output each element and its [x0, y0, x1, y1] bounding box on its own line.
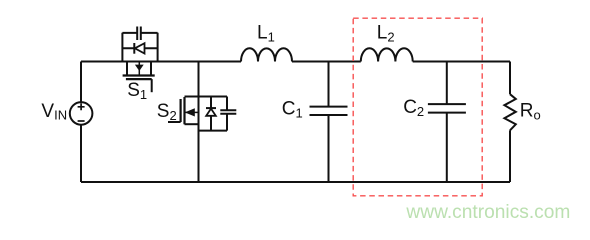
svg-text:VIN: VIN	[41, 101, 67, 123]
transistor S1 gate bar	[126, 78, 152, 80]
svg-text:L1: L1	[257, 23, 275, 45]
wire: left vertical, rail to V_IN top	[80, 62, 82, 103]
diode across S2: cathode bar	[206, 107, 216, 109]
wire: Ro bottom to bottom rail	[509, 130, 511, 182]
wire: top rail, V_IN to L1	[81, 61, 241, 63]
svg-text:L2: L2	[377, 23, 395, 45]
source V_IN minus sign	[78, 120, 85, 122]
transistor S2 body arrow shaft	[185, 111, 199, 113]
inductor L1	[241, 48, 292, 61]
highlight box (red dashed) around L2/C2 stage	[353, 18, 482, 196]
transistor S2 gate bar	[180, 99, 182, 122]
transistor S1 drain stub	[126, 62, 128, 75]
capacitor C2 top lead	[446, 62, 448, 105]
svg-text:S2: S2	[157, 101, 177, 123]
capacitor C2 bottom lead	[446, 113, 448, 182]
switch S1 snubber loop left vertical	[121, 33, 123, 62]
capacitor C1 top lead	[328, 62, 330, 107]
wire: bottom rail	[81, 181, 510, 183]
wire: V_IN bottom to bottom rail	[80, 125, 82, 182]
svg-text:www.cntronics.com: www.cntronics.com	[405, 202, 570, 223]
transistor S2 diode/cap loop bottom	[199, 130, 228, 132]
source V_IN plus sign	[78, 103, 85, 110]
transistor S2 bottom stub	[185, 123, 199, 125]
wire: top rail, L1 to L2	[292, 61, 361, 63]
inductor L2	[361, 48, 413, 61]
transistor S1 channel bar	[123, 74, 155, 76]
transistor S1 source stub	[150, 62, 152, 75]
resistor Ro zigzag	[504, 94, 515, 130]
diode across S2: triangle (points up)	[206, 109, 216, 116]
capacitor across S2: plates	[220, 110, 236, 113]
capacitor across S2: branch wires	[226, 97, 228, 131]
capacitor C2 plates	[428, 104, 466, 113]
diode across S1: triangle (points left)	[135, 43, 145, 53]
source V_IN circle	[70, 102, 93, 125]
transistor S2 gate lead	[168, 121, 181, 123]
capacitor across S1: plates	[137, 27, 141, 41]
transistor S2 body arrow head (points left)	[185, 108, 195, 116]
diode across S1: lead wires	[122, 47, 157, 49]
transistor S1 gate lead	[151, 79, 153, 92]
wire: right vertical, rail corner to Ro	[509, 62, 511, 95]
transistor S2 channel bar	[183, 97, 185, 124]
transistor S1 body arrow head (points down)	[135, 65, 144, 71]
capacitor C1 bottom lead	[328, 115, 330, 182]
transistor S2 top stub and diode/cap loop top	[185, 96, 228, 98]
svg-text:C2: C2	[403, 97, 424, 119]
svg-text:S1: S1	[127, 80, 147, 102]
diode across S2: branch wires	[210, 97, 212, 131]
svg-text:Ro: Ro	[520, 101, 541, 123]
capacitor across S1: lead wires	[122, 32, 157, 34]
capacitor C1 plates	[310, 107, 348, 115]
diode across S1: cathode bar	[133, 43, 135, 54]
transistor S1 body arrow shaft	[138, 62, 140, 76]
svg-text:C1: C1	[282, 99, 303, 121]
wire: top rail, L2 to Ro corner	[413, 61, 510, 63]
wire: S2 drain vertical (rail to bottom rail)	[198, 62, 200, 183]
switch S1 snubber loop right vertical	[157, 33, 159, 62]
